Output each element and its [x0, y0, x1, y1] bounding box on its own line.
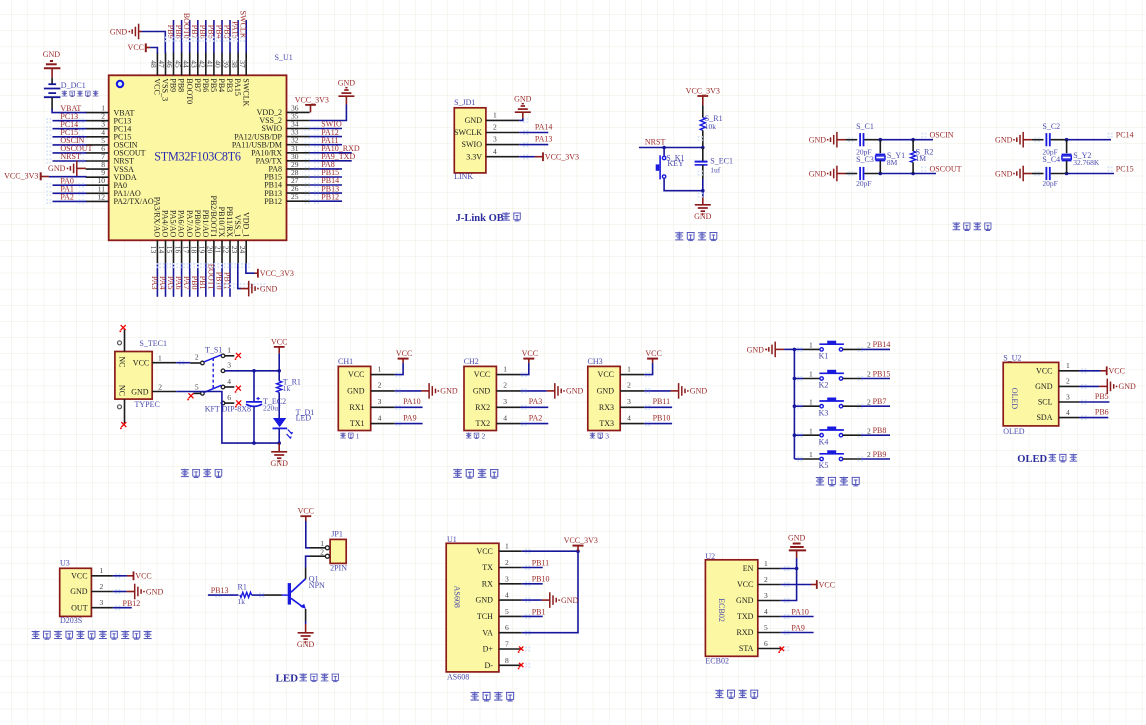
- wire PB6 (pin 42): [205, 20, 207, 53]
- U1 pin 26 (PB13) right stub: [287, 192, 310, 194]
- svg-text:VCC: VCC: [396, 349, 412, 358]
- svg-text:3: 3: [227, 361, 231, 370]
- svg-text:VCC_3V3: VCC_3V3: [564, 536, 598, 545]
- wire PA10: [395, 406, 423, 408]
- svg-text:NC: NC: [118, 356, 127, 367]
- ground GND (CH2): [547, 390, 555, 392]
- svg-text:16: 16: [173, 246, 182, 254]
- svg-text:1: 1: [1066, 361, 1070, 370]
- wire PA3: [521, 406, 549, 408]
- power port VCC_3V3 (pin 36 VDD_2): [305, 104, 316, 106]
- U1 pin 24 (VDD_1) bottom stub: [245, 240, 247, 263]
- U1 pin 23 (VSS_1) bottom stub: [237, 240, 239, 263]
- svg-text:PB7: PB7: [190, 25, 199, 39]
- U3 pin 3 (OUT): [91, 607, 113, 609]
- svg-text:GND: GND: [146, 587, 164, 596]
- wire BOOT1: [213, 263, 215, 297]
- U1 pin 46 (PB9) top stub: [173, 52, 175, 75]
- JD1 pin 3 (SWIO): [486, 144, 519, 146]
- caption key circuit: [816, 477, 860, 486]
- svg-text:GND: GND: [110, 27, 128, 36]
- svg-text:2: 2: [493, 123, 497, 132]
- AS608 pin 8 (D-): [499, 664, 522, 666]
- wire PA9_TXD: [310, 160, 352, 162]
- U1 pin 36 (VDD_2) right stub: [287, 111, 310, 113]
- svg-text:43: 43: [189, 60, 198, 68]
- capacitor S_C4 20pF: [1032, 173, 1044, 175]
- power port VCC_3V3 (JD1): [535, 156, 543, 158]
- svg-text:4: 4: [1066, 408, 1070, 417]
- svg-text:1: 1: [809, 426, 813, 435]
- svg-text:VSS_3: VSS_3: [161, 78, 170, 101]
- wire EC2 to rail: [253, 406, 255, 443]
- AS608 pin 7 (D+): [499, 648, 522, 650]
- svg-text:2: 2: [867, 450, 871, 459]
- svg-text:PB1/AO: PB1/AO: [201, 210, 210, 238]
- svg-text:GND: GND: [465, 116, 483, 125]
- svg-text:VCC: VCC: [153, 78, 162, 94]
- svg-text:LINK: LINK: [454, 172, 473, 181]
- svg-text:2: 2: [867, 426, 871, 435]
- wire TEC1 GND to rail: [176, 392, 279, 444]
- U1 pin 15 (PA5/AO) bottom stub: [173, 240, 175, 263]
- svg-text:GND: GND: [788, 533, 806, 542]
- svg-text:PC14: PC14: [1116, 130, 1134, 139]
- svg-text:PB3: PB3: [225, 78, 234, 92]
- wire R1 to Q1 base: [252, 594, 265, 596]
- svg-text:VCC_3V3: VCC_3V3: [4, 171, 38, 180]
- svg-text:2PIN: 2PIN: [330, 564, 347, 573]
- svg-text:PA4: PA4: [158, 276, 167, 290]
- svg-text:1: 1: [809, 341, 813, 350]
- wire EN to bus: [781, 568, 797, 570]
- svg-text:GND: GND: [995, 136, 1013, 145]
- wire CH1 GND: [395, 390, 421, 392]
- svg-text:40: 40: [214, 60, 223, 68]
- wire PC13: [53, 120, 87, 122]
- svg-text:PB12: PB12: [321, 192, 339, 201]
- svg-text:PB9: PB9: [873, 450, 887, 459]
- junction: [1065, 138, 1069, 142]
- svg-text:8: 8: [505, 656, 509, 665]
- svg-text:J-Link OB: J-Link OB: [456, 213, 504, 224]
- wire VDD_1 pin 24 to VCC_3V3: [246, 263, 255, 273]
- ground GND (OSCOUT cap): [836, 166, 838, 182]
- svg-text:1: 1: [378, 364, 382, 373]
- svg-text:NRST: NRST: [645, 137, 666, 146]
- MCU U1 STM32F103C8T6 body: [109, 75, 287, 240]
- svg-text:10k: 10k: [705, 122, 717, 131]
- U1 pin 35 (VSS_2) right stub: [287, 120, 310, 122]
- svg-text:6: 6: [764, 639, 768, 648]
- U1 pin 10 (PA0) left stub: [86, 184, 109, 186]
- svg-text:VCC: VCC: [598, 370, 614, 379]
- junction: [252, 369, 256, 373]
- svg-text:K2: K2: [819, 381, 829, 390]
- junction: [701, 146, 705, 150]
- svg-text:PA15: PA15: [233, 78, 242, 96]
- power port VCC (CH2): [528, 359, 530, 363]
- svg-text:23: 23: [230, 246, 239, 254]
- svg-text:PA5: PA5: [166, 276, 175, 290]
- U1 pin 6 (OSCOUT) left stub: [86, 152, 109, 154]
- svg-text:PB6: PB6: [201, 78, 210, 92]
- switch pin5 stub + no-connect: [193, 392, 200, 394]
- svg-text:1uf: 1uf: [710, 166, 721, 175]
- svg-text:3: 3: [627, 397, 631, 406]
- U1 pin 1 (VBAT) left stub: [86, 112, 109, 114]
- svg-text:VCC: VCC: [135, 572, 151, 581]
- U1 pin 48 (VCC) top stub: [156, 52, 158, 75]
- svg-text:OLED: OLED: [1010, 388, 1019, 410]
- svg-text:VCC: VCC: [476, 547, 492, 556]
- U1 pin 17 (PA7/AO) bottom stub: [189, 240, 191, 263]
- svg-text:VCC_3V3: VCC_3V3: [295, 95, 329, 104]
- wire PA9: [395, 423, 423, 425]
- svg-text:1: 1: [227, 345, 231, 354]
- wire OSCIN: [53, 144, 87, 146]
- svg-text:LED: LED: [296, 414, 312, 423]
- svg-text:GND: GND: [297, 640, 315, 649]
- svg-text:S_C1: S_C1: [856, 122, 874, 131]
- svg-text:PB1: PB1: [532, 607, 546, 616]
- svg-text:46: 46: [165, 60, 174, 68]
- power port VCC_3V3 (pin 24 VDD_1): [255, 272, 258, 274]
- ground GND (pin47): [138, 24, 140, 40]
- no-connect X (TEC1 bottom): [121, 422, 126, 427]
- svg-text:PB14: PB14: [873, 340, 891, 349]
- svg-text:3.3V: 3.3V: [466, 152, 482, 161]
- power port VCC_3V3 (reset): [697, 95, 708, 97]
- CH3 pin 4 (TX3): [620, 423, 644, 425]
- wire OSCOUT: [880, 173, 936, 175]
- svg-text:PB3: PB3: [222, 25, 231, 39]
- wire PB8: [843, 434, 861, 436]
- svg-text:2: 2: [867, 370, 871, 379]
- AS608 pin 2 (TX): [499, 567, 522, 569]
- ground GND (pin 8 VSSA): [76, 161, 78, 177]
- svg-text:GND: GND: [809, 169, 827, 178]
- svg-text:PA3/RX/AO: PA3/RX/AO: [153, 197, 162, 238]
- wire NRST: [639, 147, 703, 149]
- svg-text:AS608: AS608: [452, 586, 461, 608]
- svg-text:GND: GND: [260, 284, 278, 293]
- U1 pin 43 (PB7) top stub: [197, 52, 199, 75]
- svg-text:3: 3: [493, 135, 497, 144]
- U1 pin 34 (SWIO) right stub: [287, 128, 310, 130]
- svg-text:2: 2: [627, 381, 631, 390]
- svg-text:13: 13: [149, 246, 158, 254]
- ECB02 pin 6 (STA): [758, 648, 781, 650]
- wire VA to VCC node: [522, 551, 578, 633]
- ground GND (OLED): [1099, 385, 1107, 387]
- svg-text:PA6/AO: PA6/AO: [177, 210, 186, 237]
- svg-text:K1: K1: [819, 352, 829, 361]
- capacitor S_C1 20pF: [845, 139, 857, 141]
- wire U3 GND: [113, 591, 127, 593]
- OLED pin 1 (VCC): [1059, 370, 1079, 372]
- wire GND bus to pin3: [781, 569, 797, 601]
- pushbutton K4: [794, 434, 803, 436]
- CH2 pin 4 (TX2): [496, 423, 520, 425]
- wire PC14: [1067, 139, 1111, 141]
- svg-text:ECB02: ECB02: [717, 598, 726, 622]
- CH1 pin 1 (VCC): [371, 374, 395, 376]
- JD1 pin 4 (3.3V): [486, 156, 519, 158]
- svg-text:4: 4: [764, 607, 768, 616]
- svg-text:1: 1: [158, 354, 162, 363]
- svg-text:20pF: 20pF: [856, 179, 871, 188]
- power port VCC (U3): [127, 575, 134, 577]
- junction: [793, 377, 797, 381]
- svg-text:K4: K4: [819, 437, 829, 446]
- CH3 pin 3 (RX3): [620, 406, 644, 408]
- wire VCC to pin 48: [150, 48, 157, 54]
- svg-text:D+: D+: [483, 645, 494, 654]
- svg-text:2: 2: [482, 432, 486, 441]
- svg-text:32.768K: 32.768K: [1073, 158, 1100, 167]
- svg-text:CH1: CH1: [338, 357, 353, 366]
- ground GND (JD1 pin1): [522, 112, 524, 118]
- wire GND to battery: [51, 78, 53, 84]
- svg-text:SDA: SDA: [1036, 413, 1052, 422]
- wire CH1 VCC: [395, 363, 403, 375]
- U1 pin 14 (PA4/AO) bottom stub: [165, 240, 167, 263]
- wire PC15: [1067, 173, 1114, 175]
- svg-text:VCC_3V3: VCC_3V3: [260, 269, 294, 278]
- OLED pin 2 (GND): [1059, 385, 1079, 387]
- svg-text:GND: GND: [566, 387, 584, 396]
- wire PA2: [521, 423, 549, 425]
- svg-text:JP1: JP1: [331, 530, 343, 539]
- wire SWIO: [310, 128, 342, 130]
- svg-text:PB8: PB8: [873, 426, 887, 435]
- svg-text:18: 18: [189, 246, 198, 254]
- wire PB0: [197, 263, 199, 297]
- CH2 pin 2 (GND): [496, 390, 520, 392]
- wire OLED GND: [1079, 385, 1099, 387]
- svg-text:VCC: VCC: [819, 580, 835, 589]
- power port VCC (OLED): [1101, 370, 1107, 372]
- svg-text:21: 21: [214, 246, 223, 254]
- pushbutton K5: [794, 458, 803, 460]
- svg-text:PB6: PB6: [198, 25, 207, 39]
- ground GND (OSCIN cap): [836, 132, 838, 148]
- AS608 pin 6 (VA): [499, 632, 522, 634]
- svg-text:PB0/AO: PB0/AO: [193, 210, 202, 238]
- JD1 pin 2 (SWCLK): [486, 132, 519, 134]
- U1 pin 5 (OSCIN) left stub: [86, 144, 109, 146]
- svg-text:PA3: PA3: [529, 397, 543, 406]
- svg-text:VSS_1: VSS_1: [233, 215, 242, 238]
- svg-text:BOOT0: BOOT0: [182, 13, 191, 39]
- svg-text:39: 39: [222, 60, 231, 68]
- svg-text:STM32F103C8T6: STM32F103C8T6: [154, 150, 241, 164]
- svg-text:4: 4: [493, 147, 497, 156]
- svg-text:22: 22: [222, 246, 231, 254]
- svg-text:25: 25: [291, 192, 299, 201]
- svg-text:VCC: VCC: [71, 571, 87, 580]
- power port VCC (LED circuit): [300, 515, 311, 517]
- svg-text:PA14: PA14: [535, 122, 553, 131]
- svg-text:1k: 1k: [238, 597, 246, 606]
- svg-text:TX3: TX3: [599, 419, 614, 428]
- wire PA7: [189, 263, 191, 297]
- svg-text:VCC: VCC: [1036, 366, 1052, 375]
- ground GND (PC14 cap): [1022, 132, 1024, 148]
- ground GND (CH3): [671, 390, 679, 392]
- wire PA2: [53, 200, 87, 202]
- svg-text:TX1: TX1: [350, 419, 365, 428]
- svg-text:20: 20: [206, 246, 215, 254]
- wire CH2 VCC: [521, 363, 529, 375]
- wire U3 VCC: [113, 575, 127, 577]
- wire PB7 (pin 43): [197, 20, 199, 53]
- svg-text:R1: R1: [238, 583, 247, 592]
- wire PB3 (pin 39): [229, 20, 231, 53]
- wire CH3 VCC: [644, 363, 652, 375]
- svg-text:1: 1: [100, 566, 104, 575]
- ground GND (AS608): [542, 599, 550, 601]
- svg-text:SWCLK: SWCLK: [241, 78, 250, 106]
- wire PA15 (pin 38): [237, 20, 239, 53]
- junction: [277, 441, 281, 445]
- svg-text:8M: 8M: [887, 158, 898, 167]
- svg-text:PB9: PB9: [166, 25, 175, 39]
- pushbutton K3: [794, 405, 803, 407]
- power port VCC (CH3): [652, 359, 654, 363]
- caption reset circuit: [675, 232, 717, 241]
- svg-text:PA7: PA7: [182, 276, 191, 290]
- svg-text:24: 24: [238, 246, 247, 254]
- wire PA5: [173, 263, 175, 297]
- U1 pin 37 (SWCLK) top stub: [245, 52, 247, 75]
- U1 pin 16 (PA6/AO) bottom stub: [181, 240, 183, 263]
- ground GND (PC15 cap): [1022, 166, 1024, 182]
- svg-text:4: 4: [627, 413, 631, 422]
- LED T_D1: [278, 392, 280, 418]
- svg-text:1: 1: [356, 432, 360, 441]
- svg-text:GND: GND: [597, 387, 615, 396]
- svg-text:2: 2: [505, 558, 509, 567]
- U1 pin 39 (PB3) top stub: [229, 52, 231, 75]
- svg-text:GND: GND: [48, 164, 66, 173]
- capacitor T_EC2 220uf: [253, 371, 255, 402]
- svg-text:RX2: RX2: [475, 403, 490, 412]
- wire PB11: [644, 406, 672, 408]
- svg-text:OLED: OLED: [1003, 427, 1025, 436]
- wire VCC to JP1 pin1: [306, 521, 310, 548]
- svg-text:GND: GND: [440, 387, 458, 396]
- wire GND to EN: [796, 558, 798, 569]
- svg-text:S_JD1: S_JD1: [454, 98, 475, 107]
- junction: [252, 441, 256, 445]
- svg-text:SWIO: SWIO: [462, 140, 483, 149]
- svg-text:1: 1: [764, 559, 768, 568]
- svg-text:3: 3: [503, 397, 507, 406]
- U1 pin 44 (BOOT0) top stub: [189, 52, 191, 75]
- U1 pin 12 (PA2/TX/AO) left stub: [86, 200, 109, 202]
- svg-text:1: 1: [493, 111, 497, 120]
- U1 pin 31 (PA10/RX) right stub: [287, 152, 310, 154]
- wire PA13: [519, 144, 548, 146]
- svg-text:TX: TX: [482, 563, 493, 572]
- svg-text:VCC: VCC: [298, 507, 314, 516]
- CH1 pin 2 (GND): [371, 390, 395, 392]
- switch pin4 stub + no-connect: [225, 386, 235, 388]
- wire PB1: [522, 615, 543, 617]
- U1 pin 11 (PA1/AO) left stub: [86, 192, 109, 194]
- caption serial port 1: [340, 433, 353, 439]
- wire Q1 emitter to GND: [305, 609, 307, 621]
- svg-text:PB10: PB10: [532, 575, 550, 584]
- svg-text:12: 12: [98, 192, 106, 201]
- wire PB10: [522, 583, 543, 585]
- svg-text:PA13: PA13: [535, 135, 553, 144]
- svg-text:GND: GND: [1035, 382, 1053, 391]
- ECB02 pin 3 (GND): [758, 600, 781, 602]
- svg-text:PA6: PA6: [174, 276, 183, 290]
- svg-text:OSCOUT: OSCOUT: [930, 164, 962, 173]
- U1 pin 33 (PA12/USB/DP) right stub: [287, 136, 310, 138]
- svg-text:PA15: PA15: [231, 21, 240, 39]
- wire S_K1 to GND rail: [664, 178, 703, 190]
- svg-text:1: 1: [809, 397, 813, 406]
- wire PA6: [181, 263, 183, 297]
- svg-text:4: 4: [378, 413, 382, 422]
- svg-text:1M: 1M: [916, 154, 927, 163]
- AS608 pin 5 (TCH): [499, 615, 522, 617]
- svg-text:PB8: PB8: [177, 78, 186, 92]
- svg-text:K5: K5: [819, 461, 829, 470]
- wire GND to key bus: [784, 348, 794, 350]
- wire PB5 (pin 41): [213, 20, 215, 53]
- junction: [1065, 172, 1069, 176]
- svg-text:VCC_3V3: VCC_3V3: [545, 153, 579, 162]
- svg-text:3: 3: [100, 598, 104, 607]
- wire to GND (reset): [702, 191, 704, 198]
- wire PB11: [522, 567, 543, 569]
- svg-text:PB9: PB9: [169, 78, 178, 92]
- U1 pin 28 (PB15) right stub: [287, 176, 310, 178]
- junction: [911, 138, 915, 142]
- svg-text:PB11: PB11: [532, 558, 550, 567]
- resistor T_R1 1K: [278, 371, 280, 381]
- U1 pin 22 (PB11/RX) bottom stub: [229, 240, 231, 263]
- svg-text:TXD: TXD: [737, 612, 754, 621]
- svg-text:1: 1: [627, 364, 631, 373]
- svg-text:42: 42: [198, 60, 207, 68]
- svg-text:15: 15: [165, 246, 174, 254]
- ground GND (LED circuit): [305, 624, 307, 633]
- svg-text:220uf: 220uf: [263, 404, 281, 413]
- ground GND (U3): [127, 591, 135, 593]
- ECB02 pin 4 (TXD): [758, 616, 781, 618]
- key bus wire: [793, 349, 795, 459]
- wire PB9 (pin 46): [173, 20, 175, 53]
- svg-text:GND: GND: [736, 596, 754, 605]
- svg-text:D_DC1: D_DC1: [61, 81, 86, 90]
- wire PA9 (ECB02): [781, 632, 814, 634]
- svg-text:VCC: VCC: [133, 359, 149, 368]
- svg-text:GND: GND: [338, 78, 356, 87]
- svg-text:S_C2: S_C2: [1042, 122, 1060, 131]
- U1 pin 32 (PA11/USB/DM) right stub: [287, 144, 310, 146]
- svg-text:VCC: VCC: [271, 337, 287, 346]
- caption serial circuit: [453, 469, 498, 479]
- svg-text:PB15: PB15: [873, 369, 891, 378]
- power port VCC (power circuit): [274, 346, 285, 348]
